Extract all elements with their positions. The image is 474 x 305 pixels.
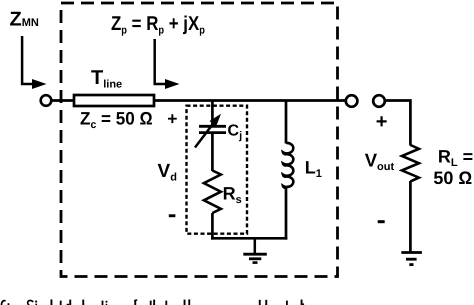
wire: R_s to bottom rail — [211, 213, 214, 240]
wire: transmission line to output terminal — [154, 99, 346, 102]
caption h (the) — [153, 300, 155, 305]
resistor R_s — [204, 171, 221, 214]
wire: C_j to R_s — [211, 133, 214, 171]
caption i (matching) — [265, 300, 267, 305]
inductor L1 coil — [283, 143, 293, 188]
caption f (for) — [134, 300, 136, 305]
caption S top (Simulated) — [28, 300, 34, 305]
caption digit 6 top — [1, 301, 5, 305]
caption k (network) — [301, 300, 303, 305]
caption i (schematic) — [106, 301, 108, 303]
wire: main line down to varactor — [211, 101, 214, 126]
varactor capacitor C_j plates — [199, 126, 226, 132]
wire: load circle to R_L branch — [385, 101, 411, 146]
caption b (tunable) — [184, 300, 186, 305]
arrow for Zp (down then right) — [155, 39, 180, 89]
caption t (Simulated) — [60, 301, 62, 305]
figure caption (clipped at page bottom) — [1, 299, 304, 305]
caption h (matching) — [259, 300, 261, 305]
ground (matching network) — [243, 239, 266, 263]
wire: input circle to transmission line — [51, 99, 74, 102]
caption d (Simulated) — [69, 300, 71, 305]
wire: L1 to bottom rail — [285, 188, 288, 240]
svg-text:+: + — [376, 111, 388, 133]
transmission line T_line body — [74, 95, 154, 106]
inner varactor dashed box — [187, 106, 248, 234]
ground (load) — [401, 253, 422, 265]
caption l (Simulated) — [51, 299, 53, 305]
svg-text:+: + — [167, 109, 177, 129]
bottom rail wire — [211, 237, 287, 240]
arrow for Z_MN (down then right) — [22, 36, 46, 89]
minus sign for V_d — [169, 214, 176, 217]
resistor R_L — [402, 145, 419, 181]
outer matching-network dashed box — [61, 3, 338, 277]
caption t (tunable) — [165, 301, 167, 305]
wire: R_L to ground — [409, 181, 412, 252]
input port terminal circle — [41, 95, 52, 106]
caption t (schematic) — [102, 301, 104, 305]
caption h (schematic) — [82, 300, 84, 305]
label Zc = 50 ohm — [80, 109, 153, 132]
caption i (Simulated) — [35, 301, 37, 303]
caption t (the) — [150, 301, 152, 305]
caption l (tunable) — [188, 299, 190, 305]
varactor tuning arrow through C_j — [195, 114, 221, 148]
output terminal circle (inside box) — [346, 95, 358, 107]
wire: main line down to L1 — [285, 101, 288, 144]
load terminal circle — [373, 95, 385, 107]
caption period — [8, 303, 10, 305]
minus sign for V_out — [378, 220, 385, 223]
svg-text:50 Ω: 50 Ω — [433, 168, 472, 188]
label Zp = Rp + jXp — [111, 13, 205, 37]
caption t (network) — [286, 301, 288, 305]
